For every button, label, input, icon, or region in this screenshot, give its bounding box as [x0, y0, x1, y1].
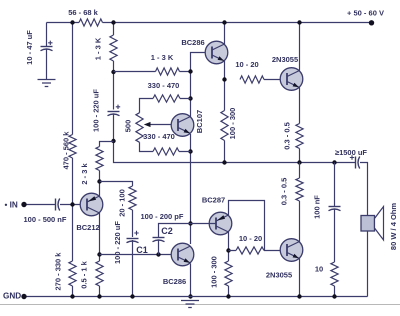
node: C1 bottom — [130, 294, 134, 298]
resistor 330-470 bottom — [153, 148, 179, 155]
wire: 10-20b left stub and to base — [229, 250, 288, 252]
wire: feedback leg to 20-100 — [100, 182, 133, 297]
svg-text:100 - 200 pF: 100 - 200 pF — [141, 212, 184, 221]
node: BC287 base / C2 top — [188, 221, 192, 225]
wire: BC286b emitter to gnd — [190, 264, 192, 297]
resistor 100-300 bottom — [225, 261, 232, 286]
wire: trimmer loop top y=98 — [140, 99, 191, 113]
svg-text:C1: C1 — [136, 245, 148, 255]
svg-text:0.3 - 0.5: 0.3 - 0.5 — [280, 178, 289, 206]
node: top rail / 1-3K — [111, 20, 115, 24]
transistor BC107 — [171, 114, 194, 137]
resistor 10 — [331, 262, 338, 286]
wire: 2N3055t emitter down — [299, 88, 301, 163]
node: rail/56-68k junction — [70, 20, 74, 24]
svg-text:BC107: BC107 — [195, 110, 204, 133]
resistor 56-68k — [79, 19, 103, 26]
svg-text:100 - 300: 100 - 300 — [228, 108, 237, 140]
svg-text:500: 500 — [124, 120, 133, 133]
resistor 1-3K horizontal — [156, 68, 180, 75]
node: output node — [297, 160, 301, 164]
wire: output to 2N3055b collector — [299, 163, 301, 243]
wire: BC286 top base branch x=190 — [191, 53, 213, 245]
svg-text:2 - 3 k: 2 - 3 k — [80, 163, 89, 185]
wire: drive wire to BC286b base — [100, 254, 179, 256]
transistor 2N3055 bottom — [280, 239, 303, 262]
node: 270-330k bottom — [70, 294, 74, 298]
svg-text:100 - 220 uF: 100 - 220 uF — [113, 221, 122, 264]
node: BC212 base / divider — [70, 202, 74, 206]
svg-text:+ 50 - 60 V: + 50 - 60 V — [347, 9, 384, 18]
resistor 330-470 top — [153, 95, 180, 102]
node: bootstrap top — [111, 70, 115, 74]
resistor 0.3-0.5 bottom — [296, 178, 303, 201]
svg-text:100 - 220 uF: 100 - 220 uF — [92, 89, 101, 132]
wire: +V top rail — [47, 22, 372, 24]
svg-text:10: 10 — [315, 265, 323, 274]
svg-text:0.5 - 1 k: 0.5 - 1 k — [80, 260, 89, 288]
svg-text:56 - 68 k: 56 - 68 k — [68, 8, 98, 17]
capacitor C2 — [153, 237, 165, 239]
svg-text:C2: C2 — [161, 226, 173, 236]
wire: 1-3K horizontal branch y=71.5 — [114, 71, 191, 73]
resistor 10-20 bottom — [236, 247, 264, 254]
node: BC212 emitter / feedback — [97, 179, 101, 183]
resistor 20-100 — [129, 186, 136, 210]
wire: bias rail x=72.5 — [72, 23, 74, 297]
resistor 100-300 top — [221, 111, 228, 141]
resistor 470-560k — [69, 135, 76, 159]
node: BC286t emitter / 10-20 / 100-300 — [222, 77, 226, 81]
svg-text:100 - 500 nF: 100 - 500 nF — [24, 215, 67, 224]
capacitor C1 100-220uF — [127, 238, 139, 240]
svg-text:100 - 300: 100 - 300 — [210, 256, 219, 288]
resistor 0.5-1k — [96, 261, 103, 286]
resistor 270-330k — [69, 261, 76, 286]
svg-text:2N3055: 2N3055 — [272, 55, 298, 64]
ground (left) — [38, 80, 56, 87]
capacitor 10-47uF — [41, 46, 53, 48]
wire: BC212 collector down / 0.5-1k — [99, 213, 101, 297]
svg-text:1 - 3 K: 1 - 3 K — [151, 53, 174, 62]
svg-text:≥1500 uF: ≥1500 uF — [335, 148, 367, 157]
node: BC212 collector / drive wire — [97, 252, 101, 256]
transistor BC212 — [80, 193, 103, 216]
svg-text:BC212: BC212 — [76, 223, 99, 232]
svg-text:• IN: • IN — [5, 201, 18, 210]
node: BC286t collector on rail — [222, 20, 226, 24]
wire: BC287 base — [191, 223, 217, 225]
svg-text:1 - 3 K: 1 - 3 K — [94, 37, 103, 60]
svg-text:270 - 330 k: 270 - 330 k — [54, 252, 63, 291]
resistor 2-3k — [96, 147, 103, 171]
svg-text:BC286: BC286 — [163, 277, 186, 286]
wire: BC287 emitter bypass — [229, 201, 265, 251]
trimmer wiper arrow — [149, 124, 178, 126]
transistor 2N3055 top — [280, 68, 303, 91]
node: BC287 collector / 10-20b / 100-300b — [226, 248, 230, 252]
svg-text:10 - 20: 10 - 20 — [239, 234, 262, 243]
svg-text:BC286: BC286 — [181, 38, 204, 47]
capacitor 100-220uF bootstrap — [108, 111, 120, 113]
resistor 10-20 top — [240, 76, 264, 83]
wire: GND rail — [24, 296, 368, 298]
wire: BC212 emitter up / 2-3k — [100, 142, 114, 197]
terminal +50-60V — [369, 20, 374, 25]
svg-text:10 - 47 uF: 10 - 47 uF — [25, 30, 34, 65]
wire: left branch down to C 10-47uF and ground — [46, 23, 48, 80]
svg-text:10 - 20: 10 - 20 — [235, 60, 258, 69]
wire: BC286t collector to rail — [224, 23, 226, 45]
svg-text:0.3 - 0.5: 0.3 - 0.5 — [283, 122, 292, 150]
node: BC286b emitter on gnd rail — [188, 294, 192, 298]
node: 0.5-1k bottom — [97, 294, 101, 298]
wire: BC286t emitter down — [224, 61, 226, 163]
wire: speaker bottom to gnd corner — [367, 231, 369, 297]
node: 330-470 bottom right / BC107 emitter — [188, 149, 192, 153]
node: 2N3055b emitter — [297, 294, 301, 298]
svg-text:100 nF: 100 nF — [313, 195, 322, 219]
capacitor 100nF — [329, 206, 341, 208]
svg-text:GND: GND — [3, 291, 21, 300]
svg-text:2N3055: 2N3055 — [266, 271, 292, 280]
node: 2N3055t collector on rail — [297, 20, 301, 24]
terminal GND — [21, 294, 26, 299]
svg-text:330 - 470: 330 - 470 — [148, 81, 180, 90]
svg-text:470 - 560 k: 470 - 560 k — [62, 131, 71, 170]
resistor 0.3-0.5 top — [296, 124, 303, 149]
node: 100-300t bottom on output rail — [222, 160, 226, 164]
node: 1-3K right — [188, 69, 192, 73]
trimmer 500 — [136, 113, 143, 143]
node: 330-470 top right / BC107 collector — [188, 96, 192, 100]
svg-text:80 W / 4 Ohm: 80 W / 4 Ohm — [389, 203, 398, 250]
terminal IN — [21, 202, 26, 207]
node: bootstrap bottom — [111, 139, 115, 143]
transistor BC286 top — [205, 41, 228, 64]
wire: 2N3055b emitter to gnd — [299, 258, 301, 297]
wire: 2N3055t collector to rail — [299, 23, 301, 71]
node: zobel tap — [332, 160, 336, 164]
ground (mid) — [181, 301, 199, 308]
svg-text:330 - 470: 330 - 470 — [143, 132, 175, 141]
page bottom border line — [0, 304, 400, 306]
transistor BC287 — [209, 212, 232, 235]
node: 10R bottom — [332, 294, 336, 298]
wire: 10-20t to 2N3055t base — [264, 79, 287, 81]
resistor 1-3K vertical — [110, 35, 117, 61]
speaker — [361, 216, 375, 232]
capacitor 100-500nF input — [55, 199, 57, 211]
wire: input — [24, 204, 88, 206]
node: 100-300b bottom — [226, 294, 230, 298]
wire: trimmer loop bottom y=151.4 — [140, 142, 191, 151]
transistor BC286 bottom — [171, 243, 194, 266]
wire: zobel — [334, 163, 336, 297]
wire: BC287 collector down — [228, 232, 230, 297]
svg-text:20 - 100: 20 - 100 — [118, 189, 127, 217]
wire: bootstrap chain x=113.5 — [114, 23, 368, 216]
node: C2 bottom — [156, 252, 160, 256]
capacitor 1500uF output — [355, 157, 357, 169]
svg-text:BC287: BC287 — [202, 196, 225, 205]
wire: C2 branch — [159, 224, 191, 255]
